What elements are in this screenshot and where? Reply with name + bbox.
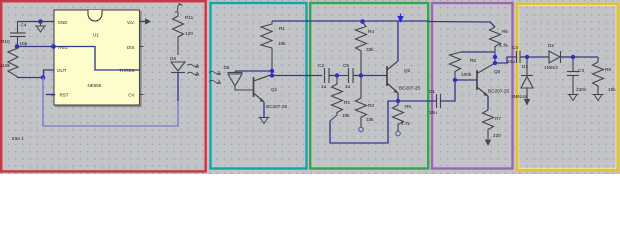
node emitter <box>396 99 400 103</box>
terminal circle R5 <box>396 131 401 136</box>
svg-text:Q3: Q3 <box>494 69 501 74</box>
wire top rail (teal+green) <box>272 20 428 22</box>
svg-text:BC207-25: BC207-25 <box>399 86 421 91</box>
svg-text:220: 220 <box>493 133 501 138</box>
diode D1 <box>521 57 533 99</box>
wire to yellow section (step) <box>495 57 517 63</box>
svg-text:R10: R10 <box>1 39 10 44</box>
svg-text:1N914a: 1N914a <box>511 94 528 99</box>
svg-text:33k: 33k <box>366 117 374 122</box>
svg-text:4.7k: 4.7k <box>401 121 411 126</box>
wire R5b top to R6 bottom <box>461 51 495 53</box>
CV pin stub <box>139 94 144 96</box>
svg-text:4.7k: 4.7k <box>499 43 509 48</box>
resistor R8 <box>593 57 604 94</box>
svg-text:C1: C1 <box>429 89 435 94</box>
svg-text:1N914: 1N914 <box>544 65 558 70</box>
wire R10 bottom to OUT pin <box>17 70 54 78</box>
wire C4b to node <box>520 56 527 58</box>
svg-text:110k: 110k <box>0 63 10 68</box>
svg-text:GND: GND <box>58 20 69 25</box>
svg-text:220n: 220n <box>576 87 587 92</box>
ground C3 <box>568 95 579 101</box>
wire photodiode cathode to node <box>235 70 272 72</box>
svg-text:R5: R5 <box>470 58 476 63</box>
node at ground tap <box>38 19 43 24</box>
wire emitter out to purple <box>398 100 437 102</box>
wire collector to rail <box>397 21 399 61</box>
svg-text:R11: R11 <box>185 15 194 20</box>
wire emitter down <box>487 96 489 110</box>
wire D2 to node <box>561 56 574 58</box>
wire (selected, OUT loop to LED cathode) <box>43 78 178 127</box>
V+ arrow on rail <box>397 14 403 24</box>
svg-text:Q1: Q1 <box>271 87 278 92</box>
wire node A to TRIG pin <box>17 46 54 48</box>
svg-text:C4: C4 <box>512 45 518 50</box>
svg-text:C3: C3 <box>578 68 584 73</box>
wire node to R8 <box>573 56 598 58</box>
svg-text:R1: R1 <box>279 26 285 31</box>
V+ squiggle above R11 <box>175 4 183 13</box>
resistor R2 <box>330 76 343 122</box>
ground arrow D1 <box>524 99 530 106</box>
svg-text:D2: D2 <box>548 43 554 48</box>
green section frame <box>312 5 427 167</box>
svg-text:10u: 10u <box>507 59 515 64</box>
ground arrow <box>485 140 491 147</box>
svg-text:10u: 10u <box>429 110 437 115</box>
node collector <box>493 61 497 65</box>
wire collector node to green section <box>272 75 322 77</box>
svg-text:10k: 10k <box>608 87 616 92</box>
svg-text:BC207-25: BC207-25 <box>488 89 510 94</box>
svg-text:U1: U1 <box>93 33 99 38</box>
red section frame <box>3 3 204 170</box>
wire purple rail <box>428 22 495 28</box>
svg-text:10p: 10p <box>20 41 28 46</box>
svg-text:CV: CV <box>128 93 134 98</box>
ground R8 <box>593 95 604 101</box>
resistor R4 <box>356 22 367 76</box>
svg-text:R3: R3 <box>368 103 374 108</box>
wire feedback loop <box>330 101 398 143</box>
svg-text:C2: C2 <box>318 63 324 68</box>
wire LED cathode down <box>177 73 179 102</box>
wire base lead <box>455 79 477 81</box>
IC U1 (NE555 timer) <box>54 10 142 107</box>
transistor Q3 <box>477 63 495 96</box>
svg-text:TRIG: TRIG <box>57 45 68 50</box>
terminal circle R3 <box>359 127 364 132</box>
resistor R5b <box>450 52 462 79</box>
svg-text:D4: D4 <box>170 56 176 61</box>
ground <box>259 118 270 124</box>
node base/R4/R3 <box>359 73 363 77</box>
resistor R7 <box>483 110 494 139</box>
photodiode light arrows <box>209 71 220 84</box>
svg-text:Vcc: Vcc <box>127 20 135 25</box>
DIS pin stub <box>139 46 144 48</box>
svg-text:RST: RST <box>60 93 69 98</box>
node R4 rail junction <box>360 19 365 24</box>
resistor R3 <box>356 76 367 128</box>
node A (TRIG junction left) <box>15 44 20 49</box>
purple section frame <box>434 5 511 167</box>
wire emitter down <box>263 102 265 117</box>
transistor Q1 <box>254 75 273 103</box>
node C2/C5 junction <box>335 73 339 77</box>
svg-text:D1: D1 <box>522 64 528 69</box>
capacitor C1 <box>437 94 441 108</box>
svg-text:NE555: NE555 <box>88 83 102 88</box>
svg-text:R2: R2 <box>344 100 350 105</box>
svg-text:R8: R8 <box>605 67 611 72</box>
wire base lead <box>361 75 387 77</box>
svg-text:C5: C5 <box>343 63 349 68</box>
node dot2 Q1 collector out <box>270 73 274 77</box>
resistor R10 <box>8 47 18 78</box>
svg-text:120: 120 <box>185 31 193 36</box>
ground <box>35 22 46 33</box>
wire node to D2 <box>527 56 549 58</box>
svg-text:R4: R4 <box>368 29 374 34</box>
svg-text:10k: 10k <box>278 41 286 46</box>
capacitor C4 <box>10 22 26 47</box>
node dot1 Q1 collector rail <box>270 69 274 73</box>
teal section frame <box>212 5 304 167</box>
wire C1 to base node <box>441 80 456 101</box>
node base <box>453 78 457 82</box>
node R6 bottom <box>493 55 497 59</box>
wire TRIG to THRES over IC <box>54 47 140 71</box>
yellow section frame <box>519 6 616 169</box>
capacitor C4b <box>517 51 521 63</box>
node D1 <box>525 55 529 59</box>
svg-text:Q2: Q2 <box>404 68 411 73</box>
wire C2 to node <box>329 75 337 77</box>
svg-text:D5: D5 <box>224 65 230 70</box>
svg-text:C4: C4 <box>21 23 27 28</box>
wire RST stub <box>46 94 54 96</box>
resistor R5 <box>393 101 404 131</box>
capacitor C3 <box>567 57 579 94</box>
capacitor C5 <box>337 68 353 83</box>
resistor R11 <box>173 12 184 55</box>
Vcc pin stub with V+ arrow <box>139 18 151 25</box>
resistor R6 <box>490 27 501 63</box>
photodiode D5 <box>228 71 254 90</box>
capacitor C2 <box>325 68 330 83</box>
resistor R1 <box>261 21 272 69</box>
svg-text:1u: 1u <box>345 84 351 89</box>
svg-text:10k: 10k <box>342 113 350 118</box>
svg-text:R7: R7 <box>495 116 501 121</box>
node B (OUT tee) <box>41 75 46 80</box>
svg-text:100k: 100k <box>461 72 472 77</box>
svg-text:33k: 33k <box>366 47 374 52</box>
diode D2 <box>549 51 561 63</box>
svg-text:DIS: DIS <box>127 45 135 50</box>
node C3/R8 <box>571 55 575 59</box>
wire C5 to base node <box>353 75 361 77</box>
svg-text:BC207-25: BC207-25 <box>266 104 288 109</box>
LED D4 <box>171 62 185 73</box>
transistor Q2 <box>387 61 398 93</box>
svg-text:OUT: OUT <box>57 68 67 73</box>
wire GND pin to C4 node <box>18 21 55 23</box>
node at TRIG pin <box>51 44 56 49</box>
svg-text:R6: R6 <box>502 29 508 34</box>
svg-text:tran 1: tran 1 <box>12 136 24 141</box>
svg-text:1u: 1u <box>321 84 327 89</box>
wire emitter to node <box>397 93 399 101</box>
svg-text:R5: R5 <box>405 104 411 109</box>
LED light arrows <box>187 64 199 75</box>
